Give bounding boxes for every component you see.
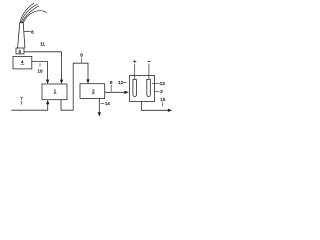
svg-text:2: 2 (92, 89, 95, 94)
label 9 tick (110, 85, 112, 91)
svg-text:11: 11 (40, 42, 45, 47)
svg-text:8: 8 (80, 53, 83, 58)
wire 7 (12, 104, 48, 111)
cathode lead (148, 64, 150, 80)
svg-text:4: 4 (21, 60, 24, 65)
box 4 (13, 56, 32, 69)
svg-text:10: 10 (37, 69, 43, 74)
chimney 6 (18, 22, 25, 48)
svg-text:9: 9 (110, 80, 113, 85)
wire 10 (32, 62, 48, 81)
svg-text:14: 14 (105, 101, 111, 106)
anode lead (134, 64, 136, 79)
label 1 (54, 89, 57, 94)
svg-text:3: 3 (160, 89, 163, 94)
label 12 leader (123, 81, 126, 83)
svg-text:5: 5 (19, 49, 22, 54)
cathode electrode (147, 80, 151, 97)
svg-text:1: 1 (54, 89, 57, 94)
plus terminal (134, 60, 137, 63)
label 13 leader (152, 82, 160, 84)
wire 15 (142, 102, 169, 111)
svg-text:6: 6 (31, 29, 34, 34)
label 6 leader (24, 31, 30, 33)
wire 8 (61, 63, 88, 110)
label 7 tick (20, 101, 22, 104)
wire 14 (98, 98, 100, 112)
label 8 tick (80, 58, 82, 63)
wire 9 (105, 91, 125, 93)
label 5 (19, 49, 22, 54)
svg-text:7: 7 (20, 96, 23, 101)
minus terminal (148, 61, 151, 63)
svg-text:15: 15 (160, 97, 166, 102)
box 1 (42, 84, 67, 100)
wire 11 (24, 52, 62, 80)
label 14 leader (101, 102, 104, 104)
label 2 (92, 89, 95, 94)
label 10 tick (39, 63, 41, 66)
box 2 (80, 84, 105, 99)
svg-text:13: 13 (160, 81, 166, 86)
box 5 (16, 48, 24, 54)
label 15 tick (161, 102, 163, 106)
electrolytic cell 3 (130, 75, 155, 101)
anode electrode (133, 80, 137, 97)
svg-text:12: 12 (118, 80, 124, 85)
label 4 (21, 60, 24, 65)
smoke plume (20, 3, 46, 23)
label 3 leader (155, 90, 160, 92)
